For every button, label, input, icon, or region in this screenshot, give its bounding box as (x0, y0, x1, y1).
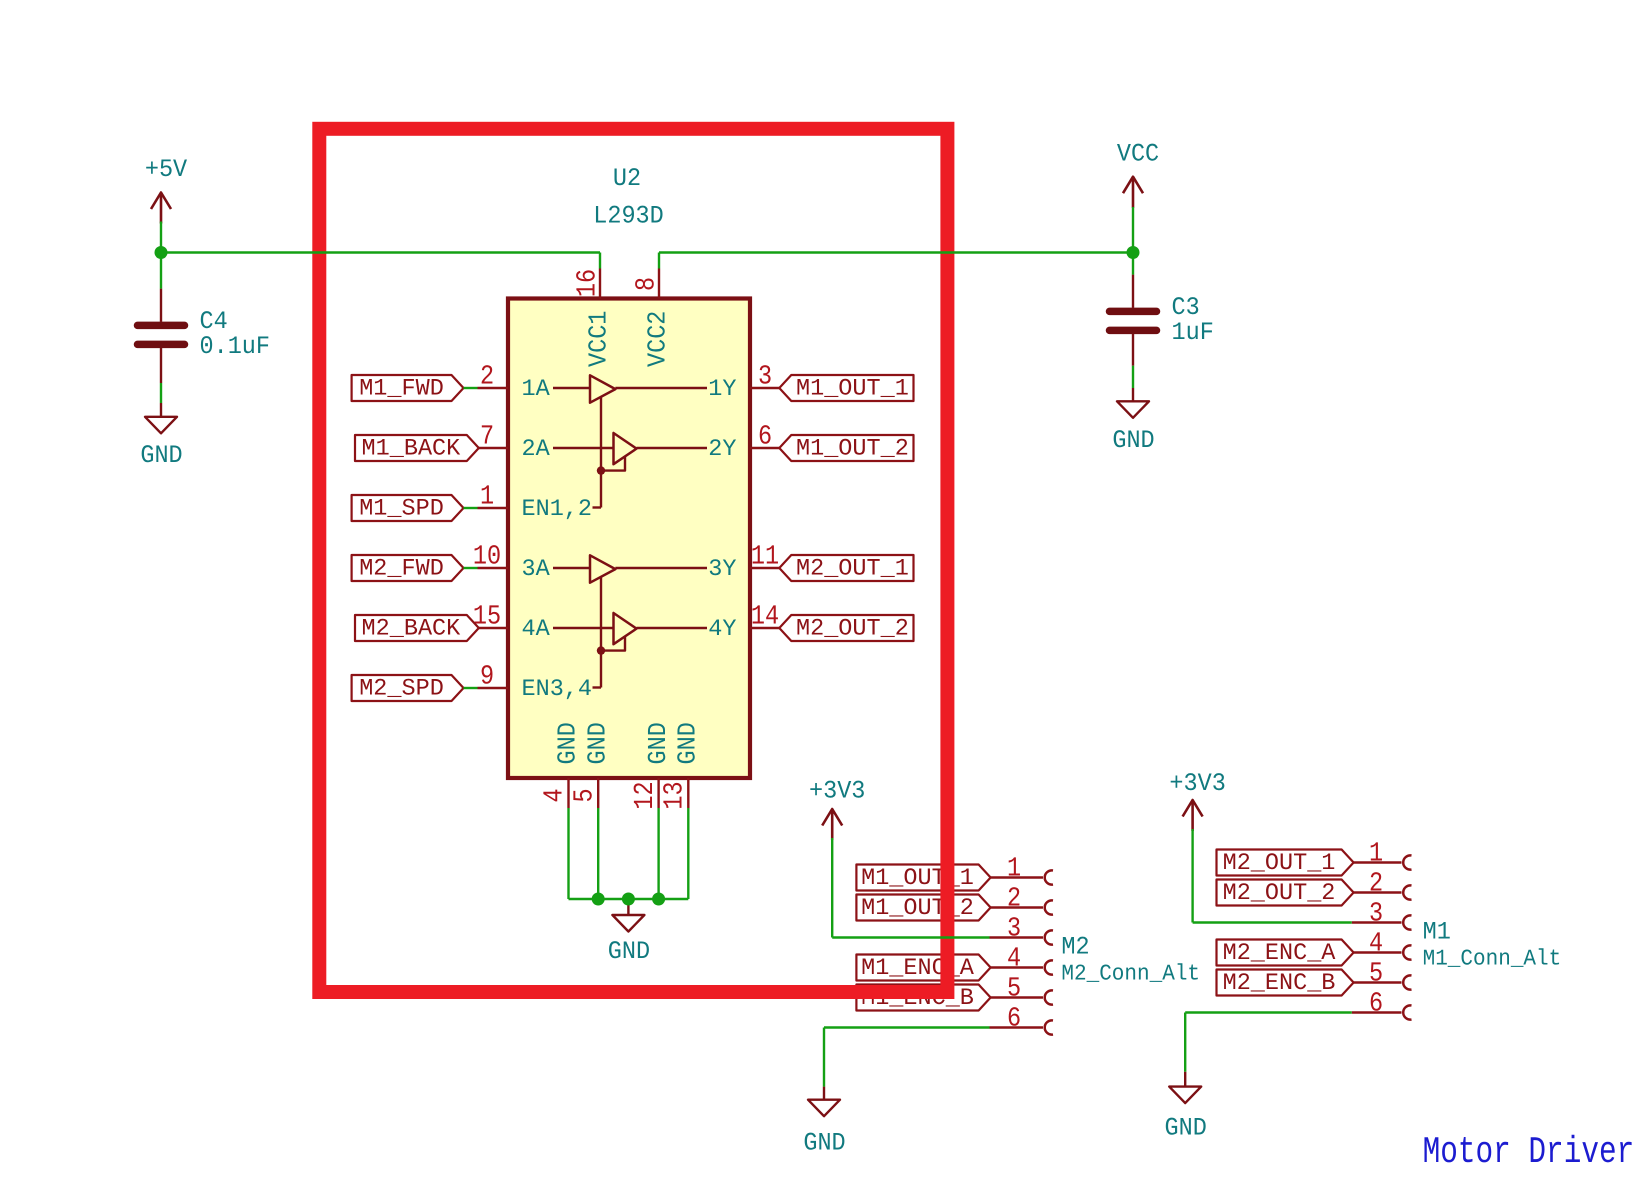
svg-text:2Y: 2Y (708, 436, 736, 463)
svg-text:3: 3 (758, 361, 772, 393)
svg-text:M1_ENC_A: M1_ENC_A (861, 955, 975, 982)
svg-text:M1_OUT_1: M1_OUT_1 (861, 865, 974, 892)
svg-text:4: 4 (1369, 928, 1383, 960)
svg-text:1: 1 (1007, 853, 1021, 885)
svg-text:2: 2 (1369, 868, 1383, 900)
svg-text:Motor Driver: Motor Driver (1423, 1131, 1635, 1173)
svg-text:GND: GND (644, 722, 674, 764)
svg-text:2: 2 (480, 361, 494, 393)
svg-text:1: 1 (1369, 838, 1383, 870)
svg-text:M1_Conn_Alt: M1_Conn_Alt (1423, 947, 1562, 972)
svg-text:13: 13 (659, 781, 691, 809)
svg-text:0.1uF: 0.1uF (200, 333, 271, 362)
svg-text:VCC: VCC (1117, 140, 1159, 169)
svg-text:M1: M1 (1423, 918, 1451, 947)
svg-text:1uF: 1uF (1172, 319, 1214, 348)
svg-text:M2_Conn_Alt: M2_Conn_Alt (1061, 962, 1200, 987)
svg-text:GND: GND (554, 722, 584, 764)
svg-text:3A: 3A (522, 556, 551, 583)
svg-text:GND: GND (803, 1129, 845, 1158)
svg-text:4: 4 (1007, 943, 1021, 975)
svg-text:GND: GND (1165, 1114, 1207, 1143)
svg-text:EN1,2: EN1,2 (522, 496, 593, 523)
svg-text:15: 15 (473, 601, 501, 633)
svg-text:M2_OUT_2: M2_OUT_2 (796, 616, 909, 643)
svg-text:2A: 2A (522, 436, 551, 463)
svg-text:M2_SPD: M2_SPD (359, 676, 444, 703)
svg-text:+3V3: +3V3 (1169, 770, 1225, 799)
svg-text:M2_OUT_2: M2_OUT_2 (1223, 880, 1336, 907)
svg-text:GND: GND (1112, 427, 1154, 456)
svg-text:2: 2 (1007, 883, 1021, 915)
svg-text:GND: GND (608, 938, 650, 967)
svg-text:M2: M2 (1061, 933, 1089, 962)
svg-text:3Y: 3Y (708, 556, 736, 583)
svg-text:4Y: 4Y (708, 616, 736, 643)
svg-text:M2_OUT_1: M2_OUT_1 (1223, 850, 1336, 877)
svg-text:+3V3: +3V3 (809, 777, 865, 806)
svg-text:14: 14 (751, 601, 779, 633)
svg-text:M1_BACK: M1_BACK (362, 436, 462, 463)
svg-text:1A: 1A (522, 376, 551, 403)
svg-text:M2_ENC_A: M2_ENC_A (1223, 940, 1337, 967)
svg-text:M2_OUT_1: M2_OUT_1 (796, 556, 909, 583)
svg-text:5: 5 (569, 788, 601, 802)
svg-text:VCC2: VCC2 (644, 311, 674, 367)
svg-text:+5V: +5V (145, 156, 187, 185)
svg-text:M1_OUT_2: M1_OUT_2 (861, 895, 974, 922)
svg-text:M1_SPD: M1_SPD (359, 496, 444, 523)
svg-text:VCC1: VCC1 (585, 311, 615, 367)
svg-text:12: 12 (630, 781, 662, 809)
svg-text:4A: 4A (522, 616, 551, 643)
svg-text:6: 6 (1369, 988, 1383, 1020)
svg-text:16: 16 (572, 269, 604, 297)
svg-text:3: 3 (1007, 913, 1021, 945)
svg-text:M2_FWD: M2_FWD (359, 556, 444, 583)
svg-text:M1_FWD: M1_FWD (359, 376, 444, 403)
svg-text:1Y: 1Y (708, 376, 736, 403)
svg-text:U2: U2 (613, 165, 641, 194)
svg-text:EN3,4: EN3,4 (522, 676, 593, 703)
svg-text:GND: GND (674, 722, 704, 764)
svg-text:1: 1 (480, 481, 494, 513)
svg-text:M1_OUT_2: M1_OUT_2 (796, 436, 909, 463)
svg-text:GND: GND (140, 442, 182, 471)
svg-text:9: 9 (480, 661, 494, 693)
svg-text:M2_ENC_B: M2_ENC_B (1223, 970, 1336, 997)
svg-text:3: 3 (1369, 898, 1383, 930)
svg-text:11: 11 (751, 541, 779, 573)
svg-text:L293D: L293D (593, 202, 664, 231)
svg-text:6: 6 (1007, 1003, 1021, 1035)
svg-text:6: 6 (758, 421, 772, 453)
svg-text:5: 5 (1007, 973, 1021, 1005)
svg-text:M1_OUT_1: M1_OUT_1 (796, 376, 909, 403)
svg-text:M2_BACK: M2_BACK (362, 616, 462, 643)
svg-text:GND: GND (584, 722, 614, 764)
svg-text:8: 8 (631, 277, 663, 291)
svg-text:7: 7 (480, 421, 494, 453)
svg-text:5: 5 (1369, 958, 1383, 990)
svg-text:4: 4 (539, 788, 571, 802)
